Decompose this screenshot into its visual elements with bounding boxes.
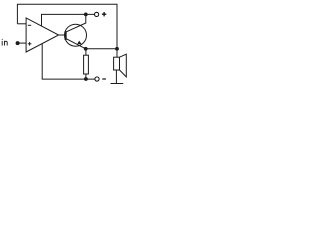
wire inverting input: [17, 23, 26, 25]
wire op-amp positive supply pin: [42, 14, 95, 26]
wire feedback loop from inverting input to output node: [17, 4, 117, 49]
terminal minus supply: [95, 77, 99, 81]
label in: [2, 39, 7, 46]
speaker LS1: [116, 49, 118, 57]
node input: [16, 41, 20, 45]
wire non-inverting input: [18, 42, 27, 44]
wire emitter node to speaker: [86, 48, 117, 50]
node collector rail junction: [84, 13, 88, 17]
ground: [111, 83, 124, 85]
wire op-amp negative supply pin: [42, 44, 95, 80]
wire op-amp output to base: [59, 34, 65, 36]
resistor R1: [85, 49, 87, 55]
node emitter output junction: [84, 47, 88, 51]
op-amp U1: [26, 18, 59, 52]
transistor Q1: [65, 24, 87, 46]
node resistor bottom junction: [84, 77, 88, 81]
node speaker junction: [115, 47, 119, 51]
terminal plus supply: [95, 12, 99, 16]
